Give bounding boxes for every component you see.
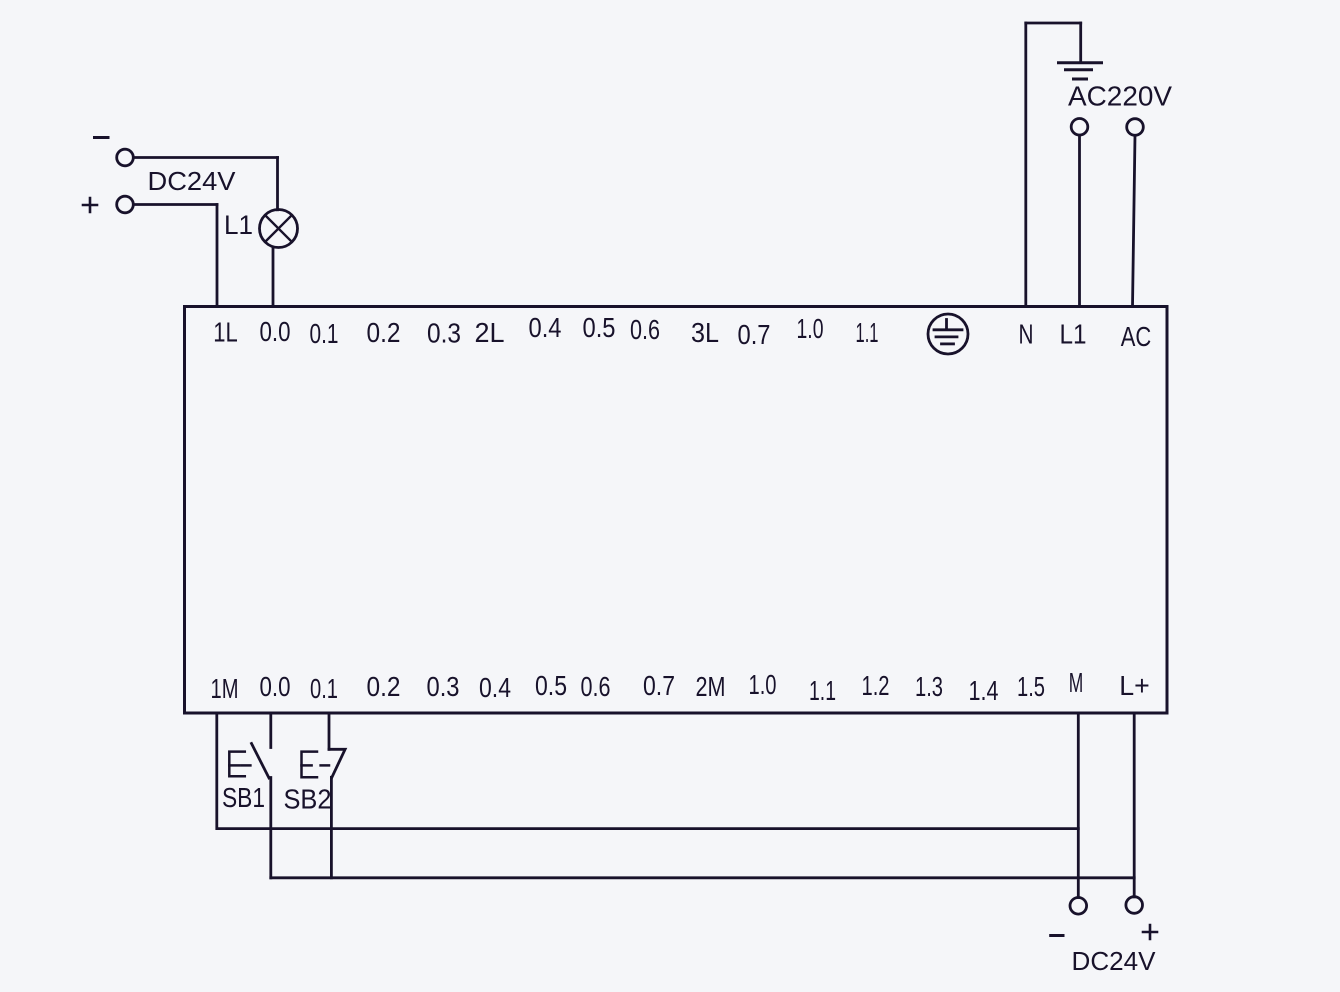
svg-text:0.2: 0.2 xyxy=(367,671,401,702)
wire: 0.1 down to SB2 xyxy=(328,713,331,749)
svg-text:1.5: 1.5 xyxy=(1017,671,1045,702)
svg-text:1.3: 1.3 xyxy=(915,671,943,702)
svg-text:1.0: 1.0 xyxy=(749,669,777,700)
AC220V terminal AC xyxy=(1127,119,1144,136)
push button SB2 contact blade xyxy=(329,749,345,777)
svg-text:AC: AC xyxy=(1121,321,1152,352)
wire: L1 terminal down to module xyxy=(1078,135,1081,306)
svg-text:DC24V: DC24V xyxy=(1072,946,1157,976)
svg-text:2L: 2L xyxy=(475,317,505,348)
plus polarity mark xyxy=(83,198,97,212)
svg-text:0.0: 0.0 xyxy=(260,316,291,347)
svg-text:0.6: 0.6 xyxy=(581,671,611,702)
DC24V source (bottom) plus terminal xyxy=(1126,897,1143,914)
wire: down to earth symbol xyxy=(1079,23,1082,62)
svg-text:0.6: 0.6 xyxy=(630,314,660,345)
svg-text:L1: L1 xyxy=(1060,319,1087,350)
wire: 1M down and across to M xyxy=(217,713,1079,829)
svg-text:1.2: 1.2 xyxy=(862,670,890,701)
svg-text:1.1: 1.1 xyxy=(856,317,879,348)
wire: button common rail to L+ xyxy=(271,876,1134,879)
svg-text:AC220V: AC220V xyxy=(1068,81,1172,112)
lamp L1 xyxy=(260,210,298,248)
protective earth terminal symbol on module xyxy=(928,314,968,354)
svg-text:L1: L1 xyxy=(224,210,253,240)
wire: SB1 bottom to common rail xyxy=(269,778,272,878)
svg-text:0.3: 0.3 xyxy=(427,671,460,702)
wire: lamp bottom to terminal 0.0 xyxy=(272,247,275,306)
svg-text:0.2: 0.2 xyxy=(367,317,401,348)
svg-text:0.3: 0.3 xyxy=(427,318,461,349)
earth ground symbol (AC source) xyxy=(1059,63,1102,79)
wire: drop to lamp top xyxy=(276,158,279,210)
svg-text:0.5: 0.5 xyxy=(535,670,567,701)
svg-text:1.1: 1.1 xyxy=(809,675,836,706)
svg-text:1.0: 1.0 xyxy=(797,313,824,344)
wire: L+ terminal down to DC24V plus xyxy=(1133,713,1136,897)
svg-text:0.7: 0.7 xyxy=(738,319,771,350)
push button SB2 actuator xyxy=(302,752,330,778)
svg-text:0.7: 0.7 xyxy=(643,670,675,701)
svg-text:DC24V: DC24V xyxy=(148,166,237,196)
svg-text:M: M xyxy=(1069,667,1084,698)
AC220V terminal L1 xyxy=(1071,119,1088,136)
svg-text:SB1: SB1 xyxy=(222,782,265,813)
wire: AC terminal down to module xyxy=(1133,135,1136,306)
minus polarity mark xyxy=(95,136,109,139)
DC24V source (top left) minus terminal xyxy=(117,149,134,166)
svg-text:0.1: 0.1 xyxy=(310,318,339,349)
svg-text:L+: L+ xyxy=(1119,670,1150,701)
push button SB1 actuator xyxy=(229,752,250,777)
wire: top horizontal run xyxy=(1026,22,1081,25)
svg-text:3L: 3L xyxy=(691,317,719,348)
minus polarity mark (bottom) xyxy=(1051,934,1063,937)
AC220V source: wire from N up xyxy=(1024,23,1027,307)
svg-text:SB2: SB2 xyxy=(284,784,332,815)
wire: SB2 bottom to common rail xyxy=(330,777,333,878)
DC24V source (top left) plus terminal xyxy=(117,196,134,213)
push button SB1 contact blade xyxy=(252,744,270,779)
svg-text:0.4: 0.4 xyxy=(529,312,562,343)
PLC module box xyxy=(185,307,1168,714)
wire: minus terminal to lamp drop xyxy=(134,156,278,159)
svg-text:0.0: 0.0 xyxy=(260,671,291,702)
plus polarity mark (bottom) xyxy=(1143,925,1157,939)
svg-text:N: N xyxy=(1019,319,1034,350)
wire: down into 1L xyxy=(216,205,219,307)
svg-text:0.4: 0.4 xyxy=(479,672,511,703)
wire: M terminal down to DC24V minus xyxy=(1077,713,1080,898)
svg-text:1L: 1L xyxy=(213,317,238,348)
svg-text:1.4: 1.4 xyxy=(969,675,999,706)
svg-text:0.1: 0.1 xyxy=(310,673,338,704)
wire: 0.0 down to SB1 xyxy=(269,713,272,748)
wire: plus terminal to 1L xyxy=(134,203,218,206)
svg-text:2M: 2M xyxy=(696,671,726,702)
svg-text:1M: 1M xyxy=(211,673,239,704)
DC24V source (bottom) minus terminal xyxy=(1070,898,1087,915)
svg-text:0.5: 0.5 xyxy=(583,312,616,343)
